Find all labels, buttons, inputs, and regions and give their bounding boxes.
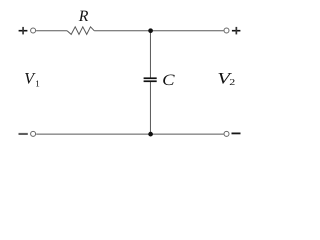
svg-text:1: 1 [35,78,40,88]
svg-text:2: 2 [229,77,235,87]
svg-text:C: C [162,72,175,89]
svg-text:R: R [78,8,89,25]
